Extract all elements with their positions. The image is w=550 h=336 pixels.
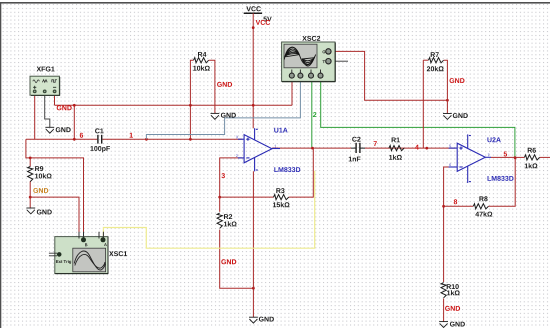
wire XSC2 G terminal to ground node (332, 51, 447, 100)
wire C2 to R1 to U2A noninverting (365, 147, 456, 149)
value R4 10k (193, 66, 210, 71)
label R7 (431, 52, 439, 57)
left window border (0, 2, 1, 328)
oscilloscope XSC2 (282, 42, 336, 82)
node 8 label (454, 199, 458, 204)
wire R2 bottom to negative rail (220, 230, 254, 289)
net label GND red near R4 (217, 82, 232, 87)
capacitor C2 (356, 143, 360, 153)
value R8 47k (475, 211, 492, 216)
VCC power symbol (244, 6, 272, 21)
capacitor C1 (98, 135, 102, 144)
wire R7 right lead down to ground (444, 60, 448, 113)
junction VCC net (252, 26, 255, 29)
resistor R10 body (441, 283, 446, 298)
wire U2A inverting input down to node 8 and R10 (444, 167, 456, 282)
net label GND red near R10 (445, 306, 460, 311)
value R10 1k (447, 290, 460, 295)
wire XSC2 T terminal stub (332, 60, 348, 62)
wire node 3 to R3 (220, 196, 274, 198)
wire XSC2 terminal 4 (green) to node 5 (321, 78, 515, 158)
ground symbol at R10 (439, 322, 448, 328)
value R7 20k (427, 66, 444, 71)
net label GND red near XFG1 (57, 105, 72, 110)
junction R9 top (29, 157, 32, 160)
U1A pin 1 number (275, 145, 277, 148)
resistor R2 body (217, 213, 222, 228)
U1A pin 2 number (236, 154, 238, 157)
label XSC2 (302, 36, 320, 41)
label U1A LM833D (274, 167, 300, 172)
wire R9 bottom to XSC1 channel B- (30, 197, 79, 238)
label XSC1 (109, 251, 127, 256)
junction node 3 (218, 196, 221, 199)
junction node6 top (73, 104, 76, 107)
junction node 2 (311, 147, 314, 150)
value R6 1k (525, 163, 538, 168)
value R1 1k (389, 155, 402, 160)
label R6 (528, 148, 536, 153)
label R2 (224, 214, 232, 219)
wire node 6 vertical drop (73, 105, 75, 139)
label XFG1 (37, 67, 55, 72)
wire node 8 to R8 (444, 205, 474, 207)
node 5 label (504, 152, 508, 157)
ground symbol at XFG1 (45, 127, 54, 133)
resistor R1 body (389, 146, 404, 151)
label GND at R10 ground (450, 322, 465, 327)
op-amp U1A (238, 128, 280, 171)
resistor R6 body (524, 155, 539, 160)
wire VCC rail down to U1A pin 8 (252, 13, 254, 128)
wire R9 top to XSC1 channel B+ (30, 158, 83, 238)
label R10 (447, 284, 459, 289)
wire R8 right lead up to node 5 (488, 158, 515, 207)
wire XFG1 plus terminal down to signal node (34, 95, 36, 139)
wire R10 bottom to ground (443, 299, 445, 322)
ground symbol at R4 (211, 113, 220, 119)
label C1 (95, 128, 104, 133)
node 7 label (374, 141, 377, 146)
label R1 (392, 138, 400, 143)
wire node 5 to R6 (515, 156, 524, 158)
wire R4 right lead to ground (209, 60, 215, 113)
label R8 (479, 196, 487, 201)
wire R3 right lead up to node 2 (289, 148, 314, 197)
value R3 15k (273, 202, 290, 207)
wire R7 left rail down to node 4 (422, 60, 424, 148)
resistor R9 body (28, 166, 33, 181)
wire signal input horizontal to C1 (26, 138, 97, 140)
label GND at R9 ground (37, 210, 52, 215)
net label GND red near R2 (221, 259, 236, 264)
wire R4 left lead branch (189, 105, 191, 139)
U2A pin 7 number (488, 154, 490, 157)
top window border (0, 2, 550, 4)
wire R9 top lead (29, 158, 31, 167)
junction R4 branch bottom (189, 138, 192, 141)
label R3 (276, 188, 284, 193)
wire R7 left lead (423, 59, 428, 61)
ground symbol at R7 (443, 114, 452, 120)
function generator XFG1 (30, 76, 60, 95)
wire node 3 down to R2 (219, 197, 221, 212)
wire XSC2 terminal 1 down to GND wire (291, 78, 293, 106)
junction node 4 (425, 147, 428, 150)
label GND at U1A rail ground (259, 317, 274, 322)
junction node 5 (514, 156, 517, 159)
wire C1 to U1A noninverting (102, 138, 242, 140)
label GND at R4 ground (221, 113, 236, 118)
label U2A LM833D (488, 176, 514, 181)
op-amp U2A (449, 134, 491, 183)
label C2 (352, 137, 360, 142)
resistor R8 body (473, 204, 488, 209)
resistor R4 body (194, 58, 209, 63)
wire XSC1 channel A probe (yellow) to node 2 (103, 171, 314, 249)
label GND at XFG1 ground (56, 127, 71, 132)
wire XFG1 common to ground (45, 95, 50, 127)
label R4 (198, 52, 206, 57)
node 2 label green (313, 112, 316, 117)
node 4 label (415, 145, 419, 150)
oscilloscope XSC1 (49, 232, 108, 274)
resistor R3 body (274, 195, 289, 200)
ground symbol at U1A rail (249, 317, 258, 323)
junction node 1 (145, 138, 148, 141)
net label VCC (red) (256, 20, 271, 25)
resistor R7 body (428, 58, 443, 63)
junction node 6 (73, 138, 76, 141)
node 6 label (80, 133, 83, 138)
wire U1A pin 4 rail down to ground (252, 171, 254, 317)
wire R9 bottom lead (29, 181, 31, 197)
wire R9 bottom to ground symbol (29, 197, 31, 208)
U2A pin 5 number (449, 145, 451, 148)
junction R4 left on GND wire (189, 104, 192, 107)
wire R6 right lead to edge (540, 156, 550, 158)
value C2 1nF (349, 157, 361, 162)
label U2A (487, 137, 500, 142)
wire XSC2 channel B probe (steel blue) to node 1 (146, 78, 300, 140)
node 3 label (222, 173, 225, 178)
ground symbol at R9 (26, 208, 35, 214)
wire corner down to R9 top (26, 139, 30, 158)
U1A pin 3 number (236, 136, 238, 139)
wire U2A output to node 5 (491, 156, 515, 158)
junction R7 right / G wire (446, 99, 449, 102)
label R9 (35, 166, 43, 171)
junction VCC rail x GND wire (252, 104, 255, 107)
value C1 100pF (90, 146, 110, 152)
net label GND orange near R9 (33, 188, 48, 193)
wire U1A inverting input down to node 3 (220, 158, 243, 197)
wire XFG1 minus terminal down (54, 95, 56, 105)
wire R4 left lead corner (190, 60, 193, 105)
label U1A (274, 128, 287, 133)
wire U1A output to C2 (272, 147, 351, 149)
label GND at R7 ground (453, 113, 468, 118)
net label GND red near R7 (450, 78, 465, 83)
junction R2 / U1A V- rail (252, 287, 255, 290)
value R9 10k (35, 173, 52, 178)
wire GND net horizontal from XFG1- to XSC2 A (55, 104, 293, 106)
U2A pin 6 number (449, 164, 451, 167)
junction node 8 (442, 205, 445, 208)
junction R9 bottom (29, 196, 32, 199)
node 1 label (130, 133, 133, 138)
value R2 1k (224, 221, 237, 226)
wire XSC2 terminal 3 (green) to node 2 (311, 78, 313, 149)
